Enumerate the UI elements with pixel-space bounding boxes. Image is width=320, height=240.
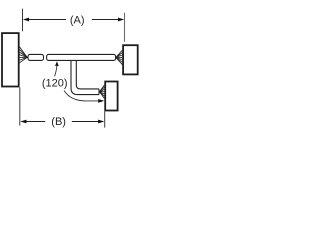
dimension arrowhead A left <box>23 18 29 22</box>
extension line left for dimension A <box>22 9 24 32</box>
extension line right for dimension A <box>124 13 126 42</box>
wire fan-out at connector J2 (top right) <box>116 50 123 65</box>
cable sleeve segment (short pill) <box>28 54 44 60</box>
dimension 120 leader lower curve <box>64 91 100 101</box>
extension line right for dimension B below connector J3 <box>104 111 106 127</box>
dimension 120 right arrowhead at connector J3 <box>98 99 104 103</box>
wire fan-out at connector J3 (bottom) <box>100 85 105 98</box>
connector J1 (left housing) <box>2 33 19 86</box>
main cable (long pill) <box>47 54 116 60</box>
branch cable end cap <box>98 89 100 95</box>
connector J3 (bottom housing) <box>105 82 117 111</box>
dimension 120 up arrowhead at cable <box>55 61 59 66</box>
connector J2 (top right housing) <box>123 45 138 74</box>
extension line left for dimension B <box>19 87 21 125</box>
wire fan-out at connector J1 <box>19 47 27 63</box>
dimension line (A) left segment <box>28 19 66 21</box>
dimension arrowhead B right <box>98 120 104 124</box>
branch cable inner edge <box>76 61 99 89</box>
dimension arrowhead B left <box>20 120 26 124</box>
dimension line (B) right segment <box>72 121 99 123</box>
branch cable outer edge <box>71 61 99 95</box>
svg-text:(120): (120) <box>42 78 68 90</box>
svg-text:(B): (B) <box>51 116 66 128</box>
dimension line (A) right segment <box>92 19 119 21</box>
svg-text:(A): (A) <box>70 15 85 27</box>
dimension arrowhead A right <box>118 18 124 22</box>
dimension line (B) left segment <box>26 121 45 123</box>
dimension 120 leader upper curve <box>55 65 57 76</box>
